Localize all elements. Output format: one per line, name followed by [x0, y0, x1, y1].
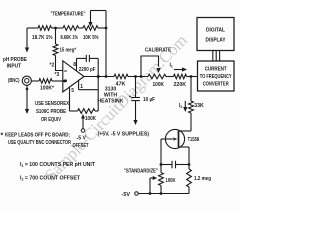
connector J1 BNC	[22, 76, 31, 85]
node C dot 10uF	[134, 75, 137, 78]
capacitor C1 2200pF	[77, 55, 99, 73]
svg-text:*3: *3	[55, 72, 60, 78]
node A junction dot	[54, 27, 57, 30]
resistor R1 18.7K	[32, 26, 53, 41]
current arrow I2	[183, 101, 187, 112]
svg-text:47K: 47K	[116, 82, 126, 88]
svg-text:"STANDARDIZE": "STANDARDIZE"	[124, 169, 158, 175]
svg-text:S100C PROBE: S100C PROBE	[36, 109, 66, 115]
svg-text:CONVERTER: CONVERTER	[203, 82, 229, 88]
node pin3 dot	[63, 80, 66, 83]
wire R7 to node C	[128, 76, 148, 78]
node source-cap dot	[188, 163, 191, 166]
wire display bus 1	[212, 51, 214, 62]
svg-text:*: *	[1, 133, 4, 140]
svg-text:5: 5	[71, 88, 74, 94]
supply arrow BNC	[25, 109, 29, 114]
capacitor C2 10uF	[129, 77, 155, 104]
svg-text:220K: 220K	[174, 82, 187, 88]
svg-text:pH PROBE: pH PROBE	[3, 57, 27, 63]
potentiometer R6 offset 100K	[70, 109, 99, 122]
current arrow I1	[174, 67, 187, 71]
svg-text:8.66K 1%: 8.66K 1%	[61, 35, 79, 41]
wire node A down	[55, 28, 57, 44]
terminal -5V bottom	[122, 192, 139, 198]
svg-text:T1S58: T1S58	[188, 137, 200, 143]
wire R9 to node E	[187, 76, 198, 78]
svg-text:OR EQUIV: OR EQUIV	[41, 117, 61, 123]
wire R3 to node B	[98, 27, 106, 29]
potentiometer R8 calibrate 100K	[148, 74, 166, 88]
wire pin1 to offset pot	[79, 90, 99, 111]
node gate-cap dot	[160, 163, 163, 166]
resistor R5 100K	[39, 79, 55, 92]
svg-text:KEEP LEADS OFF PC BOARD;: KEEP LEADS OFF PC BOARD;	[5, 133, 70, 139]
svg-text:(BNC): (BNC)	[8, 78, 20, 84]
potentiometer R11 standardize 100K	[159, 173, 176, 186]
svg-text:"TEMPERATURE": "TEMPERATURE"	[51, 12, 86, 18]
svg-text:18.7K 1%: 18.7K 1%	[32, 35, 53, 41]
svg-text:100K: 100K	[85, 116, 96, 122]
svg-text:8: 8	[73, 62, 76, 68]
wire R8 to R9	[166, 76, 174, 78]
wire BNC to R5	[31, 80, 39, 82]
wire R1-junction	[52, 27, 64, 29]
op-amp U1 3130	[63, 61, 84, 92]
svg-text:I1 = 100 COUNTS PER pH UNIT: I1 = 100 COUNTS PER pH UNIT	[20, 162, 96, 168]
svg-text:TO FREQUENCY: TO FREQUENCY	[200, 74, 232, 80]
svg-text:OFFSET: OFFSET	[73, 143, 90, 149]
resistor R12 1.2 meg	[187, 165, 211, 194]
svg-text:CURRENT: CURRENT	[205, 67, 228, 73]
pin 5 stub	[70, 87, 75, 111]
potentiometer R3 10K	[83, 26, 99, 41]
wire C1 right down	[97, 58, 100, 89]
capacitor C3 gate-source	[161, 161, 189, 169]
svg-text:10K 5%: 10K 5%	[83, 35, 99, 41]
node feedback-output dot	[105, 75, 108, 78]
wire C2 down supply	[133, 101, 137, 125]
svg-text:(+5V, -5 V SUPPLIES): (+5V, -5 V SUPPLIES)	[98, 132, 150, 138]
wire R4 to pin2	[56, 56, 64, 71]
R6 wiper arm	[81, 114, 85, 129]
wire R5 to pin3	[52, 80, 64, 82]
svg-text:-5 V: -5 V	[77, 136, 87, 142]
wire feedback vertical	[105, 28, 107, 77]
wire R2-R3	[79, 27, 84, 29]
R3 wiper arm	[88, 11, 106, 29]
svg-text:33K: 33K	[194, 103, 204, 109]
svg-text:10 µF: 10 µF	[143, 97, 155, 103]
wire R10 to Q1 drain	[179, 113, 192, 131]
svg-text:100K: 100K	[153, 82, 165, 88]
wire BNC shield down	[26, 85, 29, 109]
node B junction dot	[105, 27, 108, 30]
calibrate wiper loop	[141, 56, 161, 77]
svg-text:+: +	[129, 95, 132, 100]
resistor R2 8.66K	[61, 26, 79, 41]
svg-text:1: 1	[80, 84, 83, 90]
transistor Q1 TIS58	[161, 129, 185, 148]
note keep leads	[1, 133, 71, 140]
svg-text:15 meg*: 15 meg*	[60, 48, 77, 54]
block digital display	[197, 18, 234, 51]
resistor R4 15 meg	[53, 44, 77, 56]
pin 1 stub	[79, 80, 84, 90]
svg-text:DISPLAY: DISPLAY	[206, 38, 226, 44]
R11 wiper arm	[150, 176, 157, 194]
wire U1 output	[84, 76, 114, 78]
svg-text:CALIBRATE: CALIBRATE	[145, 48, 171, 54]
wire -5V rail	[138, 192, 189, 195]
resistor R9 220K	[174, 74, 187, 88]
terminal -5V offset	[81, 129, 85, 133]
label U1 3130	[97, 87, 123, 105]
pin 8 stub	[73, 58, 76, 70]
svg-text:USE SENSOREX: USE SENSOREX	[35, 101, 69, 107]
resistor R7 47K	[114, 74, 128, 87]
node E junction dot	[190, 75, 193, 78]
svg-text:100K*: 100K*	[40, 86, 55, 92]
svg-text:100K: 100K	[166, 178, 176, 184]
node D dot calibrate	[140, 75, 143, 78]
wire display bus 3	[219, 51, 221, 62]
block current-to-frequency converter	[198, 61, 235, 91]
wire -5V feed to R1	[27, 27, 38, 29]
wire gate down	[160, 139, 162, 173]
svg-text:I2 = 700 COUNT OFFSET: I2 = 700 COUNT OFFSET	[20, 176, 81, 182]
svg-text:HEATSINK: HEATSINK	[97, 99, 123, 105]
svg-text:-5V: -5V	[122, 192, 131, 198]
svg-text:1.2 meg: 1.2 meg	[194, 176, 211, 182]
svg-text:2200 pF: 2200 pF	[79, 67, 96, 73]
wire R11 bottom	[160, 186, 162, 194]
svg-text:INPUT: INPUT	[7, 64, 22, 70]
svg-text:*2: *2	[50, 63, 55, 69]
svg-text:DIGITAL: DIGITAL	[206, 28, 226, 34]
Q1 source lead	[179, 147, 190, 165]
wire node E down	[190, 77, 192, 102]
supply arrow left	[25, 28, 29, 53]
svg-text:USE QUALITY BNC CONNECTOR: USE QUALITY BNC CONNECTOR	[8, 140, 71, 146]
resistor R10 33K	[189, 101, 204, 113]
wire display bus 2	[215, 51, 217, 62]
